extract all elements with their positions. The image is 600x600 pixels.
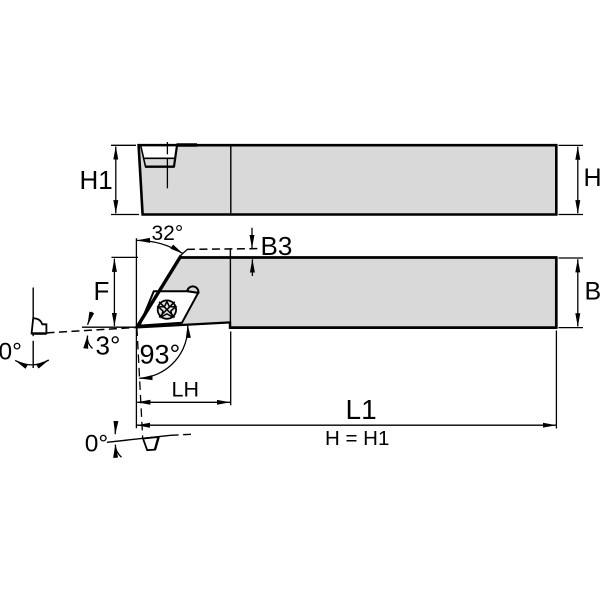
- insert screw cross ticks: [159, 302, 175, 318]
- dimension L1 line with arrows: [137, 424, 556, 426]
- dimension H bottom extension line: [559, 214, 584, 216]
- dimension B top extension line: [559, 257, 584, 259]
- bottom detail 0 degree upper arrow: [114, 424, 117, 435]
- top view pocket left slant: [141, 146, 146, 167]
- shank top view body: [139, 145, 557, 214]
- insert cutting edge thick 32 degree line: [137, 256, 181, 328]
- dimension B bottom extension line: [559, 327, 584, 329]
- 32 degree arc with arrows: [137, 240, 183, 253]
- top view pocket right slant: [174, 146, 177, 167]
- 3 degree upper arrow: [88, 312, 92, 325]
- B3 upper arrow: [251, 228, 253, 248]
- side view bottom edge: [230, 326, 556, 329]
- svg-text:B: B: [585, 278, 600, 306]
- insert side view body: [140, 291, 199, 325]
- svg-text:L1: L1: [346, 394, 377, 425]
- bottom detail insert right edge thick: [155, 437, 159, 450]
- insert pocket corner relief bump: [187, 286, 198, 293]
- side view head/shank division line: [229, 249, 231, 326]
- insert screw head circle: [158, 300, 176, 318]
- svg-text:93°: 93°: [140, 340, 181, 370]
- 3 degree lower arrow: [87, 336, 92, 349]
- dimension H line with arrows: [577, 147, 579, 214]
- insert edge thin extension to B3 level: [181, 250, 187, 256]
- top view insert edge thick segment: [177, 143, 198, 146]
- dimension H1 line with arrows: [115, 147, 117, 214]
- svg-text:H = H1: H = H1: [325, 427, 389, 450]
- svg-text:H1: H1: [80, 165, 113, 195]
- svg-text:0°: 0°: [85, 430, 108, 457]
- bottom detail seat line dashed part: [171, 434, 191, 435]
- top view screw axis center line upper: [166, 142, 168, 154]
- dimension B line with arrows: [577, 259, 579, 326]
- bottom detail insert profile: [143, 437, 159, 450]
- left detail center line upper: [32, 288, 34, 337]
- dimension F line with arrows: [113, 259, 115, 326]
- left detail insert profile: [32, 318, 47, 333]
- svg-text:LH: LH: [172, 378, 199, 402]
- insert screw torx star: [158, 301, 175, 317]
- side view body left step: [229, 322, 231, 329]
- dimension LH right extension line: [230, 332, 232, 406]
- left detail bottom edge thick: [32, 332, 47, 334]
- top view pocket mid line: [144, 157, 175, 159]
- left detail center line lower: [32, 341, 34, 368]
- top view pocket bottom line: [145, 165, 174, 167]
- dimension LH line with arrows: [137, 401, 230, 403]
- B3 dashed reference line: [187, 248, 258, 251]
- 93 degree arc with arrows: [139, 325, 187, 379]
- top view head/shank division line: [230, 147, 232, 214]
- dashed tilted center line below tip: [137, 328, 143, 439]
- side view head bottom edge 3 degree: [137, 322, 231, 327]
- B3 lower arrow: [251, 259, 253, 276]
- svg-text:F: F: [94, 276, 110, 306]
- svg-text:0°: 0°: [0, 338, 22, 365]
- dimension L1 right extension line: [555, 331, 557, 429]
- dimension F top extension line: [112, 256, 139, 258]
- vertical reference line through tip: [135, 238, 137, 428]
- top view insert pocket white face: [141, 146, 177, 158]
- side view body: [137, 256, 557, 329]
- svg-text:32°: 32°: [152, 222, 184, 245]
- horizontal reference line through tip: [82, 326, 137, 328]
- svg-text:B3: B3: [261, 231, 293, 261]
- bottom detail 0 degree lower arrow: [115, 445, 121, 458]
- left detail 0 degree arc with arrows: [15, 360, 49, 365]
- dimension H1 top extension line: [111, 144, 136, 146]
- svg-text:3°: 3°: [96, 331, 121, 361]
- top view screw axis center line lower: [166, 159, 168, 189]
- dimension H1 bottom extension line: [111, 214, 139, 216]
- side view right edge: [555, 256, 558, 329]
- side view top edge: [179, 256, 556, 259]
- bottom detail seat line: [107, 435, 171, 442]
- dashed 3 degree extension line: [47, 327, 137, 333]
- dimension H top extension line: [559, 144, 584, 146]
- svg-text:H: H: [584, 164, 600, 192]
